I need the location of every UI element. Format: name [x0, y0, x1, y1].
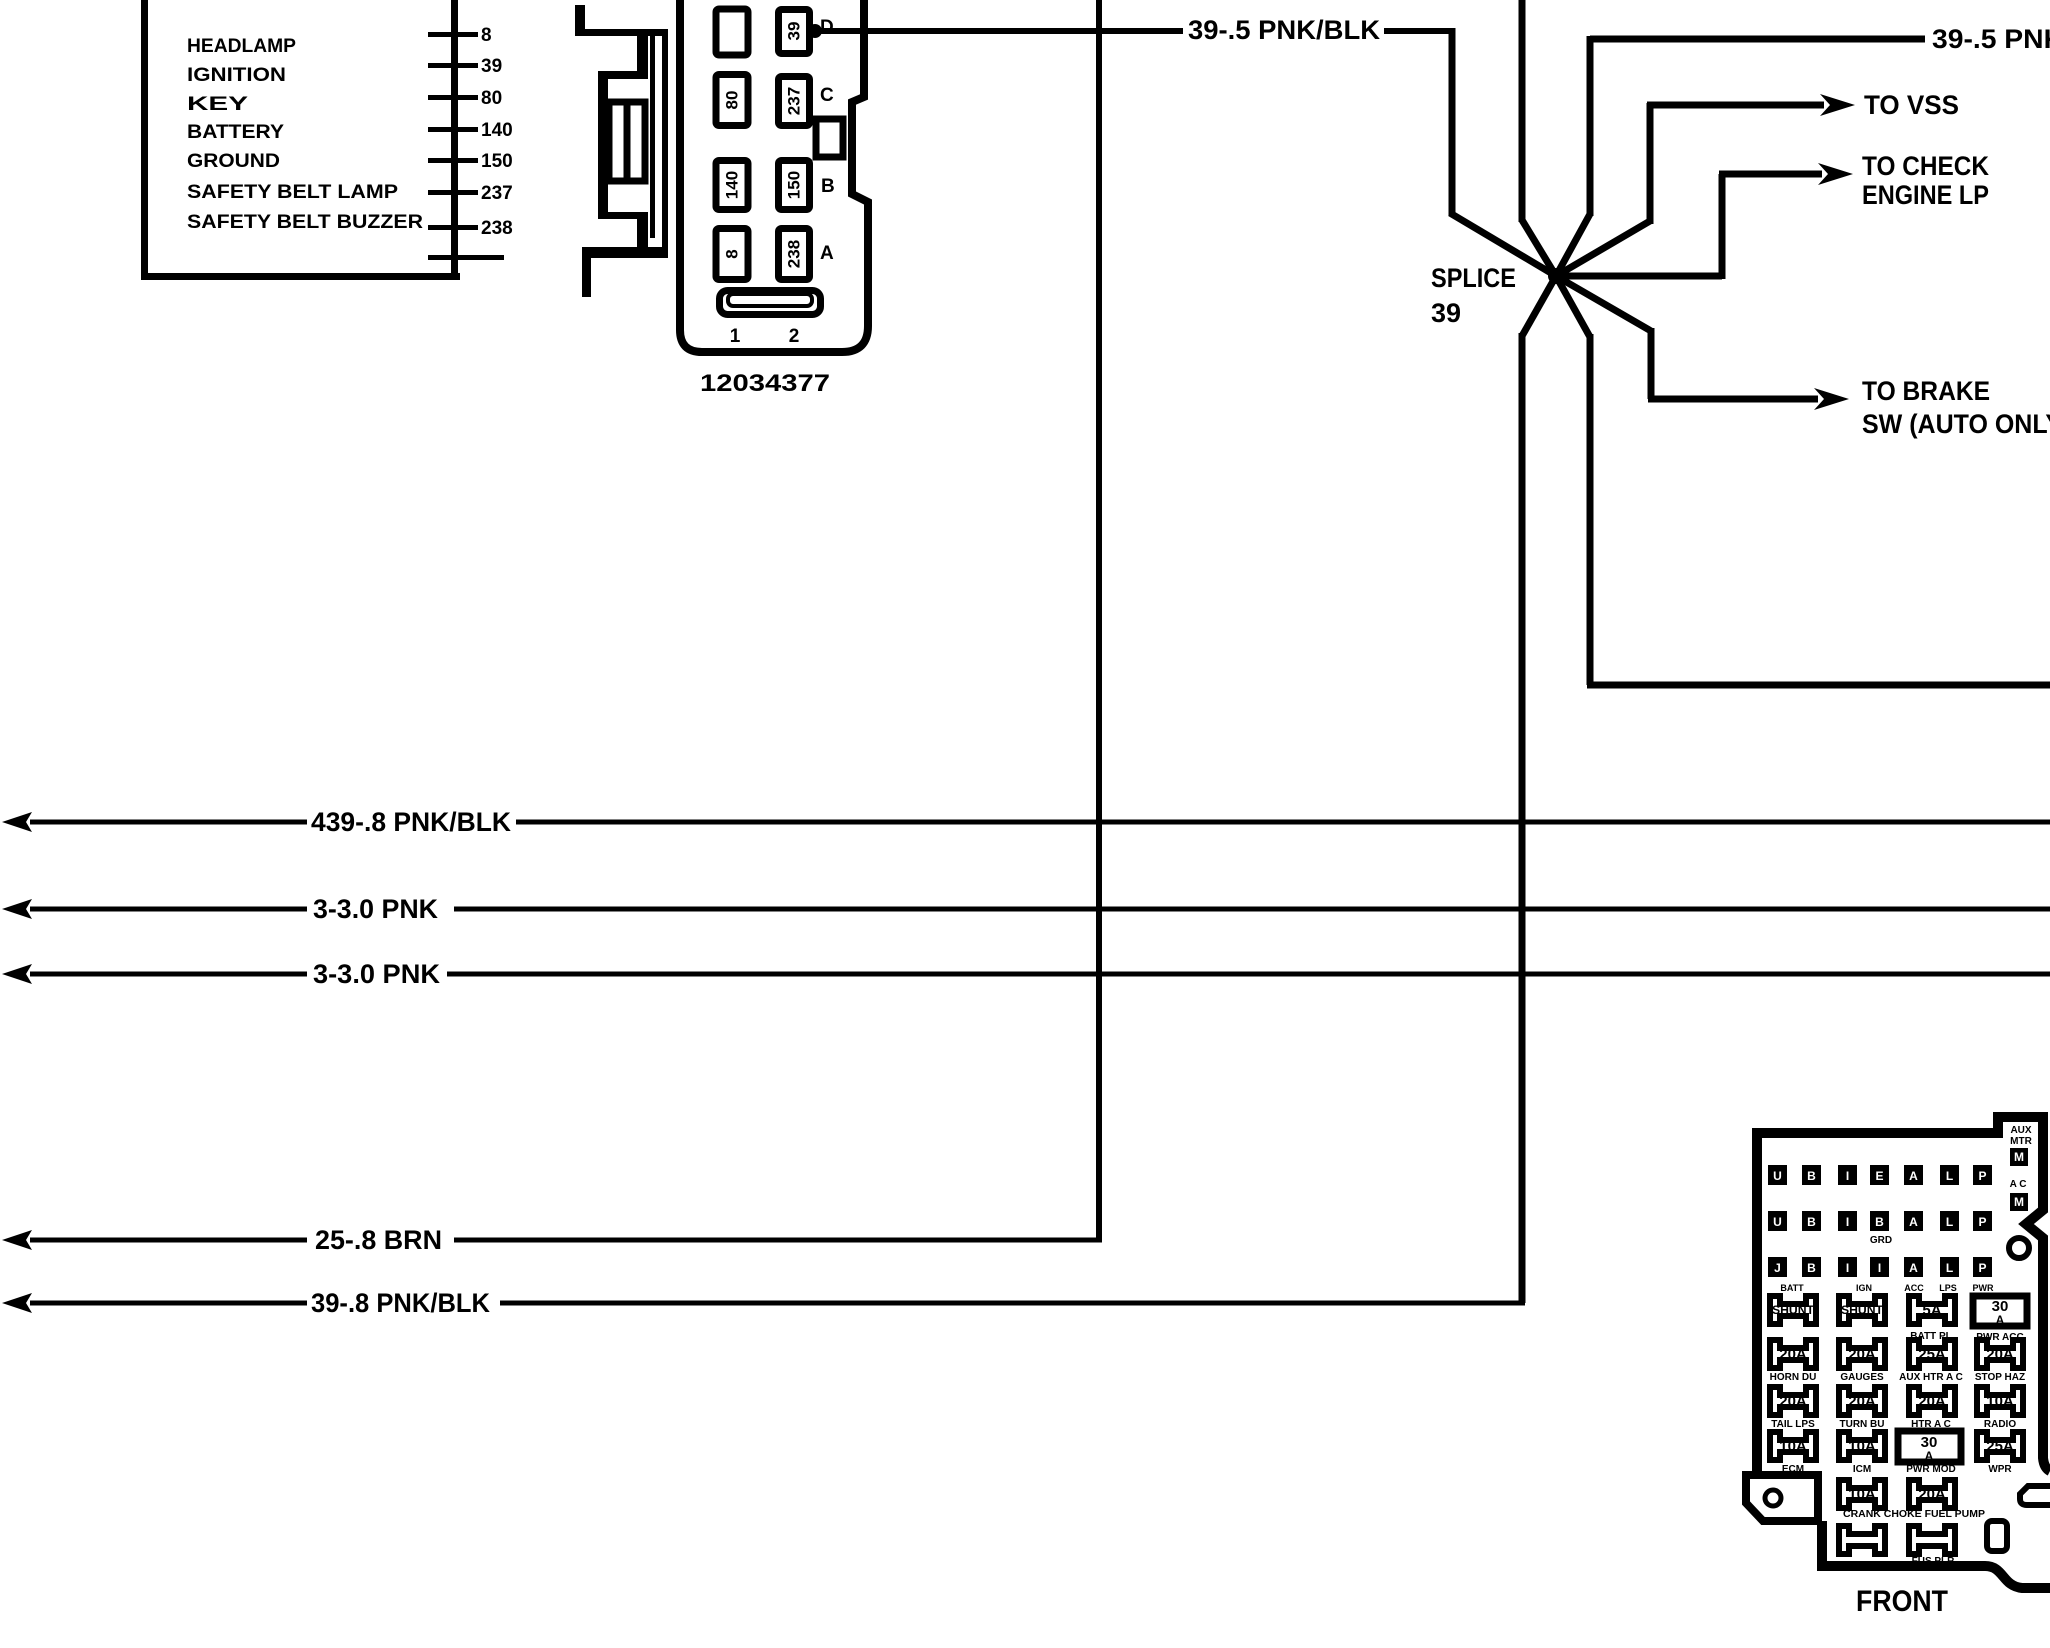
cavity L3 [1940, 1257, 1959, 1277]
svg-text:25A: 25A [1986, 1438, 2014, 1455]
fuse 30A PWR MOD [1898, 1431, 1961, 1462]
svg-text:20A: 20A [1848, 1346, 1876, 1363]
svg-text:E: E [1875, 1169, 1883, 1183]
vertical wire from top to splice [1519, 0, 1526, 222]
svg-text:39-.5 PNK/BLK: 39-.5 PNK/BLK [1188, 15, 1381, 45]
svg-text:GROUND: GROUND [187, 151, 280, 172]
svg-text:B: B [1807, 1261, 1816, 1275]
legend bus vertical [451, 0, 458, 276]
svg-text:25A: 25A [1918, 1346, 1946, 1363]
svg-text:20A: 20A [1779, 1346, 1807, 1363]
svg-text:HORN DU: HORN DU [1770, 1372, 1817, 1383]
svg-text:U: U [1773, 1169, 1782, 1183]
svg-text:STOP HAZ: STOP HAZ [1975, 1372, 2025, 1383]
svg-text:FUS PLR: FUS PLR [1912, 1556, 1956, 1567]
svg-text:5A: 5A [1922, 1302, 1941, 1319]
fuse 20A r5c3 [1909, 1480, 1955, 1508]
wire 39-.8 PNK/BLK bottom [2, 1293, 32, 1313]
long vertical wire x1099 [1096, 0, 1102, 1240]
connector body outline [680, 0, 868, 352]
svg-text:SHUNT: SHUNT [1772, 1303, 1815, 1317]
svg-text:L: L [1946, 1261, 1953, 1275]
svg-text:P: P [1978, 1169, 1986, 1183]
svg-text:150: 150 [785, 171, 804, 199]
svg-text:I: I [1846, 1215, 1849, 1229]
wire to brake switch [1556, 276, 1651, 331]
svg-text:10A: 10A [1779, 1438, 1807, 1455]
fuse 25A r2c3 [1909, 1340, 1955, 1368]
cavity A2 [1904, 1211, 1923, 1231]
wire to check engine lamp [1556, 273, 1722, 280]
tick 237 [428, 190, 478, 195]
wire splice down to 39-.8 PNK/BLK [1522, 276, 1556, 336]
svg-text:CRANK CHOKE FUEL PUMP: CRANK CHOKE FUEL PUMP [1843, 1509, 1985, 1520]
latch slider divider [624, 102, 631, 181]
fuse 30A PWR ACC [1973, 1296, 2027, 1326]
fuse SHUNT 2 [1839, 1296, 1885, 1324]
cavity I3 [1870, 1257, 1889, 1277]
svg-text:L: L [1946, 1215, 1953, 1229]
svg-text:80: 80 [723, 91, 742, 110]
svg-text:ACC: ACC [1904, 1283, 1924, 1293]
fuse 20A r2c4 [1977, 1340, 2023, 1368]
svg-text:SW (AUTO ONLY: SW (AUTO ONLY [1862, 409, 2050, 439]
svg-text:C: C [820, 85, 834, 106]
svg-text:140: 140 [481, 120, 513, 141]
svg-text:J: J [1774, 1261, 1781, 1275]
svg-text:LPS: LPS [1939, 1283, 1957, 1293]
svg-text:BATT: BATT [1780, 1283, 1804, 1293]
svg-text:L: L [1946, 1169, 1953, 1183]
svg-text:TO VSS: TO VSS [1864, 90, 1959, 120]
svg-text:237: 237 [785, 87, 804, 115]
svg-text:B: B [1875, 1215, 1884, 1229]
pin C receptacle notch [816, 119, 843, 157]
svg-text:B: B [821, 176, 835, 197]
svg-text:M: M [2014, 1195, 2024, 1209]
fuse spare r6c2 [1839, 1526, 1885, 1554]
cavity L2 [1940, 1211, 1959, 1231]
svg-text:D: D [820, 17, 834, 38]
svg-text:TURN BU: TURN BU [1840, 1419, 1885, 1430]
fuse block bottom edge [1822, 1521, 2050, 1588]
svg-text:A: A [1925, 1449, 1934, 1463]
svg-text:SHUNT: SHUNT [1841, 1303, 1884, 1317]
svg-text:1: 1 [730, 326, 741, 347]
legend box border bottom [141, 273, 460, 280]
svg-text:TO BRAKE: TO BRAKE [1862, 376, 1990, 406]
svg-text:BATTERY: BATTERY [187, 122, 284, 143]
svg-text:ICM: ICM [1853, 1464, 1871, 1475]
svg-text:ENGINE LP: ENGINE LP [1862, 180, 1989, 210]
svg-text:GAUGES: GAUGES [1840, 1372, 1884, 1383]
svg-text:238: 238 [785, 240, 804, 268]
wire D to label [812, 28, 1183, 34]
cavity near bottom right [1987, 1521, 2007, 1551]
svg-text:140: 140 [723, 171, 742, 199]
wire label to corner [1384, 28, 1453, 34]
svg-text:39-.5 PNK/BLK: 39-.5 PNK/BLK [1932, 24, 2050, 54]
side hole [2009, 1238, 2029, 1258]
svg-text:A C: A C [2010, 1179, 2027, 1190]
fuse 20A r3c3 [1909, 1387, 1955, 1415]
connector latch side view [575, 5, 668, 297]
svg-text:TO CHECK: TO CHECK [1862, 151, 1989, 181]
svg-text:20A: 20A [1918, 1393, 1946, 1410]
wire splice down right to edge [1556, 276, 1590, 337]
svg-text:HEADLAMP: HEADLAMP [187, 36, 296, 57]
svg-text:20A: 20A [1986, 1346, 2014, 1363]
svg-text:39-.8 PNK/BLK: 39-.8 PNK/BLK [311, 1288, 490, 1318]
tick 39 [428, 63, 478, 68]
svg-text:20A: 20A [1779, 1393, 1807, 1410]
svg-text:B: B [1807, 1215, 1816, 1229]
fuse 20A r2c2 [1839, 1340, 1885, 1368]
fuse block mounting tab [1746, 1475, 1818, 1521]
fuse spare r6c3 [1909, 1526, 1955, 1554]
cavity B3 [1802, 1257, 1821, 1277]
svg-text:IGN: IGN [1856, 1283, 1872, 1293]
svg-text:A: A [1996, 1313, 2005, 1327]
svg-text:150: 150 [481, 151, 513, 172]
cavity P3 [1973, 1257, 1992, 1277]
fuse 25A r4c4 [1977, 1432, 2023, 1460]
cavity E1 [1870, 1165, 1889, 1185]
svg-text:80: 80 [481, 88, 502, 109]
fuse 20A r2c1 [1770, 1340, 1816, 1368]
svg-text:RADIO: RADIO [1984, 1419, 2016, 1430]
fuse block outline [1757, 1117, 2050, 1478]
cavity I1 [1838, 1165, 1857, 1185]
splice node [1548, 268, 1564, 284]
node dot at pin D [808, 24, 822, 38]
svg-text:P: P [1978, 1215, 1986, 1229]
svg-text:KEY: KEY [187, 94, 248, 115]
pin cavity empty [716, 9, 748, 55]
fuse 10A r5c2 [1839, 1480, 1885, 1508]
svg-text:237: 237 [481, 183, 513, 204]
wire diagonal to splice [1450, 213, 1556, 276]
svg-text:I: I [1846, 1169, 1849, 1183]
svg-text:A: A [1909, 1261, 1918, 1275]
svg-text:B: B [1807, 1169, 1816, 1183]
cavity U1 [1768, 1165, 1787, 1185]
wire 439-.8 PNK/BLK [2, 812, 32, 832]
tick 238 [428, 225, 478, 230]
tick 8 [428, 32, 478, 37]
top right wire 39-.5 PNK [1590, 36, 1925, 43]
svg-text:AUX HTR A C: AUX HTR A C [1899, 1372, 1963, 1383]
cavity I2 [1838, 1211, 1857, 1231]
cavity B2 [1870, 1211, 1889, 1231]
connector slot [720, 291, 821, 315]
cavity at right edge [2020, 1486, 2050, 1505]
fuse SHUNT 1 [1770, 1296, 1816, 1324]
svg-text:25-.8 BRN: 25-.8 BRN [315, 1225, 442, 1255]
pin cavity 237 [779, 77, 810, 126]
svg-text:12034377: 12034377 [700, 370, 830, 397]
cavity P2 [1973, 1211, 1992, 1231]
svg-text:3-3.0 PNK: 3-3.0 PNK [313, 894, 438, 924]
svg-text:U: U [1773, 1215, 1782, 1229]
svg-text:PWR: PWR [1973, 1283, 1994, 1293]
svg-text:M: M [2014, 1150, 2024, 1164]
cavity I3 [1838, 1257, 1857, 1277]
tick 80 [428, 95, 478, 100]
pin cavity 8 [716, 229, 748, 280]
svg-text:PWR MOD: PWR MOD [1906, 1464, 1955, 1475]
svg-text:A: A [1909, 1215, 1918, 1229]
cavity J3 [1768, 1257, 1787, 1277]
svg-text:A: A [1909, 1169, 1918, 1183]
wire 3-3.0 PNK first [2, 899, 32, 919]
pin cavity 80 [716, 75, 748, 126]
tick unlabeled [428, 255, 504, 260]
svg-text:A: A [820, 243, 834, 264]
svg-text:238: 238 [481, 218, 513, 239]
fuse 20A r3c2 [1839, 1387, 1885, 1415]
wire 3-3.0 PNK second [2, 964, 32, 984]
svg-text:39: 39 [785, 22, 804, 41]
fuse 10A r4c1 [1770, 1432, 1816, 1460]
svg-text:I: I [1878, 1261, 1881, 1275]
tab hole [1765, 1490, 1781, 1506]
wire corner down [1449, 28, 1456, 216]
cavity A3 [1904, 1257, 1923, 1277]
pin cavity 39 [779, 10, 810, 54]
svg-text:8: 8 [481, 25, 492, 46]
cavity B1 [1802, 1165, 1821, 1185]
svg-text:10A: 10A [1848, 1486, 1876, 1503]
svg-text:439-.8 PNK/BLK: 439-.8 PNK/BLK [311, 807, 511, 837]
svg-text:GRD: GRD [1870, 1235, 1892, 1246]
svg-text:20A: 20A [1848, 1393, 1876, 1410]
svg-text:AUX: AUX [2010, 1125, 2031, 1136]
svg-text:2: 2 [789, 326, 800, 347]
pin cavity 140 [716, 161, 748, 210]
svg-text:20A: 20A [1918, 1486, 1946, 1503]
svg-text:IGNITION: IGNITION [187, 65, 286, 86]
cavity L1 [1940, 1165, 1959, 1185]
svg-text:P: P [1978, 1261, 1986, 1275]
wire 25-.8 BRN [2, 1230, 32, 1250]
fuse 5A [1909, 1296, 1955, 1324]
svg-text:TAIL LPS: TAIL LPS [1771, 1419, 1815, 1430]
svg-text:ECM: ECM [1782, 1464, 1804, 1475]
pin cavity 238 [779, 229, 810, 280]
pin cavity 150 [779, 161, 810, 210]
svg-text:3-3.0 PNK: 3-3.0 PNK [313, 959, 440, 989]
svg-text:8: 8 [723, 249, 742, 258]
legend box border left [141, 0, 148, 279]
svg-text:39: 39 [1431, 298, 1461, 328]
fuse 10A r4c2 [1839, 1432, 1885, 1460]
fuse 20A r3c1 [1770, 1387, 1816, 1415]
svg-text:SPLICE: SPLICE [1431, 263, 1516, 293]
cavity P1 [1973, 1165, 1992, 1185]
svg-text:10A: 10A [1848, 1438, 1876, 1455]
svg-text:SAFETY BELT LAMP: SAFETY BELT LAMP [187, 182, 398, 203]
svg-text:10A: 10A [1986, 1393, 2014, 1410]
latch slider frame [609, 102, 645, 181]
wire to VSS [1556, 221, 1650, 276]
svg-text:SAFETY BELT BUZZER: SAFETY BELT BUZZER [187, 212, 423, 233]
tick 140 [428, 127, 478, 132]
svg-text:MTR: MTR [2010, 1136, 2032, 1147]
svg-text:39: 39 [481, 56, 502, 77]
svg-text:WPR: WPR [1988, 1464, 2012, 1475]
svg-text:I: I [1846, 1261, 1849, 1275]
cavity A1 [1904, 1165, 1923, 1185]
tick 150 [428, 158, 478, 163]
svg-text:FRONT: FRONT [1856, 1585, 1948, 1618]
cavity U2 [1768, 1211, 1787, 1231]
fuse 10A r3c4 [1977, 1387, 2023, 1415]
cavity B2 [1802, 1211, 1821, 1231]
